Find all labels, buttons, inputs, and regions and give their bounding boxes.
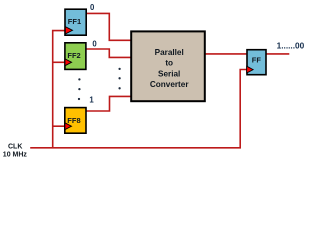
svg-text:Converter: Converter bbox=[150, 80, 189, 89]
svg-text:0: 0 bbox=[90, 3, 95, 12]
clock arrowhead into output FF bbox=[247, 66, 253, 73]
wire FF1 Q to converter input 1 bbox=[86, 13, 130, 40]
clock arrowhead into FF1 bbox=[65, 27, 72, 34]
wire CLK left vertical riser bbox=[53, 31, 65, 148]
svg-text:1: 1 bbox=[89, 95, 94, 104]
svg-text:CLK: CLK bbox=[8, 144, 22, 151]
svg-text:10 MHz: 10 MHz bbox=[3, 152, 28, 159]
flip-flop FF1 bbox=[65, 9, 86, 35]
svg-text:FF1: FF1 bbox=[68, 17, 81, 26]
wire FF serial output bbox=[266, 53, 289, 55]
svg-text:Parallel: Parallel bbox=[155, 48, 184, 57]
svg-text:FF8: FF8 bbox=[67, 116, 80, 125]
wire CLK branch to FF2 clock bbox=[53, 61, 65, 63]
wire CLK bus horizontal bbox=[30, 147, 241, 149]
wire CLK right riser to output FF clock bbox=[240, 70, 246, 149]
svg-text:1......00: 1......00 bbox=[277, 41, 305, 51]
svg-text:Serial: Serial bbox=[158, 69, 180, 78]
output flip-flop FF bbox=[247, 50, 266, 75]
ellipsis dots between converter inputs bbox=[118, 68, 120, 90]
clock arrowhead into FF8 bbox=[65, 123, 72, 130]
svg-text:FF: FF bbox=[252, 56, 262, 65]
clock arrowhead into FF2 bbox=[65, 59, 72, 66]
wire FF2 Q to converter input 2 bbox=[86, 49, 131, 57]
wire CLK branch to FF8 clock bbox=[53, 125, 65, 127]
flip-flop FF2 bbox=[65, 43, 86, 70]
flip-flop FF8 bbox=[65, 108, 86, 134]
ellipsis dots between FF2 and FF8 bbox=[78, 78, 81, 100]
parallel-to-serial converter U1 bbox=[131, 31, 205, 101]
svg-text:FF2: FF2 bbox=[67, 51, 80, 60]
svg-text:0: 0 bbox=[92, 39, 97, 48]
svg-text:to: to bbox=[165, 59, 173, 68]
wire FF8 Q to converter input 8 bbox=[86, 96, 131, 111]
wire converter output to FF serial bbox=[205, 53, 246, 55]
